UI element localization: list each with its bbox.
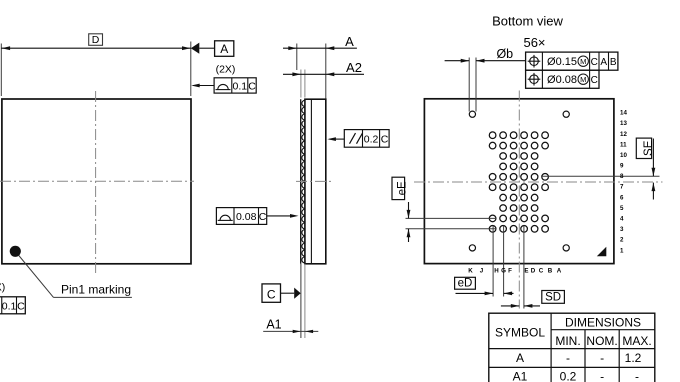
dimension D extension line right / datum A stem: [190, 42, 192, 97]
svg-text:C: C: [259, 211, 267, 223]
svg-text:A2: A2: [346, 60, 362, 75]
svg-text:SD: SD: [545, 291, 561, 303]
svg-text:A: A: [516, 351, 524, 365]
svg-text:-: -: [600, 351, 604, 365]
svg-text:A: A: [600, 57, 607, 68]
svg-text:14: 14: [620, 110, 627, 117]
svg-text:6: 6: [620, 194, 624, 201]
svg-text:C: C: [591, 57, 598, 68]
svg-text:-: -: [635, 370, 639, 382]
svg-text:G: G: [501, 267, 506, 274]
top view horizontal centerline: [0, 180, 194, 182]
svg-text:DIMENSIONS: DIMENSIONS: [565, 315, 641, 329]
svg-text:A1: A1: [266, 318, 281, 332]
svg-text:A: A: [345, 34, 354, 49]
position symbol row2: [530, 75, 539, 84]
svg-text:J: J: [480, 267, 484, 274]
side view inner substrate line: [310, 99, 312, 264]
dimension A2 line: [283, 73, 364, 75]
dimension A extension line (body top): [325, 44, 327, 99]
flatness callout 0.08 C (middle): [216, 208, 266, 225]
bottom view outline: [424, 99, 614, 264]
svg-text:F: F: [508, 267, 512, 274]
parallelism leader arrow: [330, 138, 345, 140]
SE row extension line: [542, 175, 660, 177]
flatness leader arrow to datum edge: [193, 85, 214, 87]
SE dimension line: [652, 139, 654, 177]
datum A leader: [199, 47, 214, 49]
pin1 corner triangle: [597, 247, 607, 256]
table column line min/nom: [584, 330, 586, 382]
svg-text:M: M: [580, 57, 586, 66]
svg-text:A1: A1: [513, 370, 528, 382]
svg-text:NOM.: NOM.: [586, 334, 617, 348]
svg-text:(2X): (2X): [216, 64, 236, 76]
eE row extension lines: [406, 217, 497, 219]
dimensions table frame: [489, 313, 655, 382]
svg-text:9: 9: [620, 163, 624, 170]
ball grid: [489, 132, 548, 232]
eE label box: [392, 177, 405, 199]
svg-text:K: K: [468, 267, 473, 274]
svg-text:B: B: [548, 267, 553, 274]
svg-text:C: C: [17, 301, 25, 313]
svg-text:C: C: [248, 80, 256, 92]
svg-text:eE: eE: [397, 181, 409, 195]
svg-text:11: 11: [620, 141, 627, 148]
side view horizontal centerline: [296, 180, 333, 182]
top view vertical centerline: [95, 91, 97, 274]
position tolerance frame (two rows): [526, 52, 618, 70]
svg-text:MIN.: MIN.: [555, 334, 580, 348]
corner pad circle top-left: [469, 111, 475, 117]
table row line under A: [489, 366, 655, 368]
svg-text:A: A: [557, 267, 562, 274]
Ob ball stem extension lines: [468, 58, 470, 112]
dimension D extension line left: [0, 44, 2, 97]
svg-text:0.1: 0.1: [2, 301, 17, 313]
bottom view vertical centerline: [518, 91, 520, 309]
dimension Ob line: [445, 60, 470, 62]
Pin1 leader line: [19, 256, 54, 298]
svg-text:C: C: [591, 75, 598, 86]
flatness 0.08 leader arrow to ball side: [267, 215, 292, 217]
svg-text:eD: eD: [458, 278, 473, 290]
SD dimension line: [501, 305, 519, 307]
table row line under DIMENSIONS: [551, 329, 655, 331]
eE dimension line: [408, 202, 410, 218]
corner pad circle bottom-left: [469, 245, 475, 251]
position symbol row1: [530, 57, 539, 66]
SD label box: [542, 291, 565, 304]
svg-text:D: D: [92, 34, 100, 46]
svg-text:Ø0.08: Ø0.08: [547, 74, 577, 86]
svg-text:13: 13: [620, 120, 627, 127]
datum C leader: [281, 292, 295, 294]
svg-text:7: 7: [620, 184, 624, 191]
svg-text:Ø0.15: Ø0.15: [547, 56, 577, 68]
svg-text:C: C: [381, 133, 389, 145]
svg-text:4: 4: [620, 216, 624, 223]
side view ball tip line: [300, 99, 302, 264]
table column line symbol/min: [550, 313, 552, 382]
svg-text:5: 5: [620, 205, 624, 212]
Pin1 marking dot: [10, 246, 21, 257]
label D box: [89, 34, 103, 46]
datum C filled triangle: [294, 288, 301, 299]
extension line body bottom face (upper): [300, 70, 302, 98]
bottom view horizontal centerline: [414, 181, 663, 183]
dimension A extension line (ball tip plane): [296, 44, 298, 71]
svg-text:3: 3: [620, 226, 624, 233]
svg-text:8: 8: [620, 173, 624, 180]
seating plane extension below body: [300, 264, 302, 338]
dimension A line: [283, 47, 357, 49]
svg-text:M: M: [580, 75, 586, 84]
eD label box: [455, 277, 476, 289]
svg-text:Øb: Øb: [496, 47, 513, 61]
svg-text:Pin1 marking: Pin1 marking: [61, 283, 131, 297]
package top view outline: [2, 99, 191, 264]
SE label box: [636, 138, 651, 158]
column extension lines below grid: [492, 226, 494, 297]
svg-text:-: -: [600, 370, 604, 382]
svg-text:SE: SE: [643, 140, 655, 156]
parallelism callout 0.2 C: [344, 130, 389, 148]
svg-text:SYMBOL: SYMBOL: [495, 325, 545, 339]
svg-text:-: -: [566, 351, 570, 365]
svg-text:MAX.: MAX.: [622, 334, 651, 348]
svg-text:10: 10: [620, 152, 627, 159]
eD dimension line: [456, 292, 494, 294]
table row line under header: [489, 348, 655, 350]
datum A box: [215, 41, 234, 57]
svg-text:1.2: 1.2: [625, 351, 642, 365]
svg-text:(2X): (2X): [0, 282, 5, 294]
corner pad circle top-right: [563, 111, 569, 117]
side view solder bumps: [302, 100, 305, 263]
svg-text:12: 12: [620, 131, 627, 138]
svg-text:D: D: [531, 267, 536, 274]
svg-text:1: 1: [620, 247, 624, 254]
svg-text:0.2: 0.2: [364, 133, 379, 145]
datum C box: [262, 284, 281, 302]
svg-text:B: B: [610, 57, 617, 68]
flatness callout 0.1 C (top): [214, 78, 256, 93]
svg-text:C: C: [267, 287, 276, 301]
svg-text:56×: 56×: [523, 35, 545, 50]
svg-text:A: A: [220, 42, 228, 56]
corner pad circle bottom-right: [563, 245, 569, 251]
table column line nom/max: [618, 330, 620, 382]
svg-text:H: H: [494, 267, 499, 274]
flatness callout 0.1 C (bottom-left, cut off): [0, 297, 25, 314]
svg-text:E: E: [524, 267, 528, 274]
side view body: [305, 99, 326, 264]
datum A filled triangle: [191, 43, 200, 54]
svg-text:0.2: 0.2: [560, 370, 577, 382]
svg-text:Bottom view: Bottom view: [492, 14, 563, 29]
svg-text:0.08: 0.08: [236, 211, 257, 223]
svg-text:0.1: 0.1: [232, 80, 247, 92]
svg-text:C: C: [539, 267, 544, 274]
svg-text:2: 2: [620, 237, 624, 244]
dimension D line with arrows: [1, 47, 191, 49]
dimension A1 line: [263, 330, 318, 332]
